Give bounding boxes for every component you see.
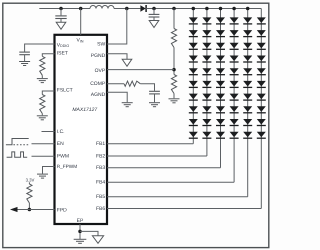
ground: RFPWM earth	[37, 174, 48, 178]
label: FB4 pin	[96, 180, 105, 186]
svg-text:OVP: OVP	[95, 68, 106, 74]
FPD input arrow	[10, 207, 18, 212]
wire: COMP RC mid	[140, 84, 154, 91]
svg-text:PWM: PWM	[57, 153, 69, 159]
svg-text:VIN: VIN	[77, 38, 84, 44]
svg-text:3.3V: 3.3V	[26, 177, 35, 182]
wire: LED string 5 column	[247, 9, 249, 197]
wire: inductor to diode	[114, 8, 140, 10]
wire: PWM pin	[32, 155, 55, 157]
wire: LED string 6 column	[260, 9, 262, 209]
label: VIN pin	[77, 38, 84, 44]
LED string 4 diodes	[230, 17, 239, 138]
resistor R_OVP1	[171, 29, 176, 48]
ground: FSLCT earth	[37, 116, 48, 120]
wire: COMP pin	[107, 83, 124, 85]
svg-text:EP: EP	[77, 218, 84, 224]
svg-text:FB4: FB4	[96, 180, 105, 186]
label: EN pin	[57, 141, 64, 147]
wire: VIN input rail	[39, 8, 90, 10]
ground: COMP cap AGND	[149, 103, 160, 107]
label: OVP pin	[95, 68, 106, 74]
node: LED rail junction 5	[246, 7, 250, 11]
label: FB2 pin	[96, 153, 105, 159]
svg-text:FB1: FB1	[96, 141, 105, 147]
EN enable waveform icon	[6, 139, 29, 145]
wire: FSLCT pin	[42, 91, 54, 95]
resistor R_OVP2	[171, 75, 176, 94]
resistor R_ISET	[40, 56, 45, 75]
wire: FB6 return	[107, 208, 261, 210]
node: VIN pin junction	[79, 7, 83, 11]
wire: EN pin	[32, 143, 55, 145]
label: RFPWM pin	[57, 164, 77, 169]
wire: SW pin riser	[107, 9, 127, 45]
node: OVP divider top junction	[172, 7, 176, 11]
capacitor C_VDDIO	[19, 52, 30, 61]
resistor R_FSLCT	[40, 95, 45, 114]
svg-text:VDDIO: VDDIO	[57, 42, 70, 48]
wire: VIN to IC pin	[80, 9, 82, 35]
node: SW junction	[125, 7, 129, 11]
wire: FB3 return	[107, 167, 221, 169]
node: FPD junction	[28, 208, 32, 212]
LED string 2 diodes	[202, 17, 211, 138]
label: PGND pin	[91, 53, 106, 59]
diode D1	[140, 5, 146, 12]
svg-text:FB6: FB6	[96, 206, 105, 212]
wire: FB2 return	[107, 155, 207, 157]
ground: AGND pin earth	[122, 103, 133, 107]
node: OVP junction	[172, 68, 176, 72]
wire: divider bottom lead	[173, 94, 175, 99]
LED string 5 diodes	[243, 17, 252, 138]
LED string 6 diodes	[257, 17, 266, 138]
wire: PGND pin	[107, 54, 127, 60]
wire: EP to PGND triangle	[80, 231, 98, 235]
wire: 3.3V lead	[28, 182, 30, 184]
wire: LED string 1 column	[192, 9, 194, 144]
wire: RFPWM pin	[43, 167, 55, 174]
label: FSLCT pin	[57, 88, 73, 94]
ground: EP PGND triangle	[92, 236, 103, 244]
ground: input cap PGND triangle	[56, 22, 66, 29]
IC U1 MAX17127	[55, 35, 108, 224]
label: FB5 pin	[96, 194, 105, 200]
label: PWM pin	[57, 153, 69, 159]
capacitor COUT	[149, 9, 160, 21]
svg-text:AGND: AGND	[91, 92, 106, 98]
wire: FSLCT resistor lead	[41, 114, 43, 116]
wire: AGND pin	[107, 92, 127, 102]
wire: VDDIO pin	[25, 44, 55, 52]
svg-text:EN: EN	[57, 141, 64, 147]
PWM square wave icon	[7, 152, 28, 157]
svg-text:FB2: FB2	[96, 153, 105, 159]
svg-text:FB3: FB3	[96, 165, 105, 171]
svg-text:COMP: COMP	[90, 81, 106, 87]
svg-text:R_FPWM: R_FPWM	[57, 164, 77, 169]
svg-text:FSLCT: FSLCT	[57, 88, 73, 94]
wire: divider mid	[173, 48, 175, 75]
svg-text:I.C.: I.C.	[57, 129, 65, 135]
label: AGND pin	[91, 92, 106, 98]
ground: ISET earth	[37, 79, 48, 83]
label: 3.3V supply	[26, 177, 35, 182]
label: MAX17127 part number	[72, 107, 97, 113]
inductor L1	[90, 6, 114, 9]
label: EP pad	[77, 218, 84, 224]
wire: FB4 return	[107, 181, 234, 183]
wire: LED string 4 column	[233, 9, 235, 183]
label: VDDIO pin	[57, 42, 70, 48]
ground: VDDIO cap earth	[19, 62, 30, 66]
svg-text:ISET: ISET	[57, 50, 68, 56]
label: ISET pin	[57, 50, 68, 56]
wire: EP pin lead	[79, 224, 81, 239]
label: FB6 pin	[96, 206, 105, 212]
capacitor C_COMP	[149, 91, 160, 102]
label: FB3 pin	[96, 165, 105, 171]
ground: EP earth	[74, 239, 87, 243]
wire: IC pin stub	[42, 131, 55, 133]
svg-text:FPD: FPD	[57, 207, 67, 213]
wire: divider top lead	[173, 9, 175, 29]
svg-text:FB5: FB5	[96, 194, 105, 200]
wire: FB1 return	[107, 143, 193, 145]
LED string 3 diodes	[216, 17, 225, 138]
wire: ISET pin	[42, 54, 54, 57]
svg-text:PGND: PGND	[91, 53, 106, 59]
svg-text:MAX17127: MAX17127	[72, 107, 97, 113]
label: FPD pin	[57, 207, 67, 213]
wire: ISET resistor lead	[41, 75, 43, 78]
wire: LED string 3 column	[220, 9, 222, 168]
ground: output cap PGND triangle	[149, 21, 159, 28]
wire: diode to LED rail	[146, 8, 261, 10]
wire: LED string 2 column	[206, 9, 208, 157]
resistor R_FPD pullup	[27, 184, 32, 203]
capacitor CIN	[55, 9, 66, 23]
node: LED rail junction 1	[192, 7, 196, 11]
wire: pullup to FPD	[28, 203, 30, 210]
svg-text:SW: SW	[97, 42, 105, 48]
node: LED rail junction 3	[219, 7, 223, 11]
node: EP junction	[78, 230, 82, 234]
label: IC pin	[57, 129, 65, 135]
wire: FB5 return	[107, 196, 248, 198]
label: SW pin	[97, 42, 105, 48]
resistor R_COMP	[124, 81, 140, 86]
label: FB1 pin	[96, 141, 105, 147]
wire: FPD pin	[17, 209, 55, 211]
node: output cap junction	[152, 7, 156, 11]
node: input cap junction	[59, 7, 63, 11]
ground: PGND triangle	[122, 59, 132, 66]
node: LED rail junction 2	[205, 7, 209, 11]
ground: OVP divider AGND	[169, 99, 180, 103]
node: LED rail junction 4	[232, 7, 236, 11]
LED string 1 diodes	[189, 17, 198, 138]
label: COMP pin	[90, 81, 106, 87]
wire: OVP pin	[107, 69, 174, 71]
